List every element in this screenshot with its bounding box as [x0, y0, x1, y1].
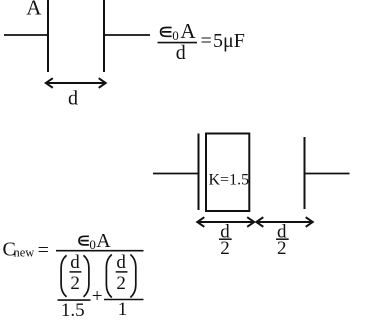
- capacitor C2 right plate: [304, 137, 306, 209]
- svg-text:d: d: [116, 252, 126, 273]
- epsilon0 symbol (numerator): [79, 236, 89, 245]
- dimension arrow d (plate separation of C1): [46, 78, 106, 88]
- capacitor C1 right plate: [103, 0, 105, 72]
- denominator bar (left group): [58, 299, 91, 301]
- svg-text:+: +: [92, 286, 103, 307]
- svg-text:=: =: [201, 30, 212, 52]
- denominator bar (right group): [104, 299, 144, 301]
- svg-text:2: 2: [277, 238, 287, 259]
- left parenthesis (d/2 over 1 group): [106, 255, 111, 298]
- svg-text:2: 2: [220, 238, 230, 259]
- wire (left lead of capacitor C2): [153, 173, 199, 175]
- wire (left lead of capacitor C1): [4, 34, 48, 36]
- svg-text:2: 2: [70, 273, 80, 294]
- fraction bar: [158, 42, 198, 44]
- svg-text:=: =: [38, 240, 49, 262]
- dimension arrow d/2 (dielectric thickness): [197, 217, 254, 227]
- right parenthesis (right group): [130, 255, 135, 298]
- formula Cnew (series combination result): [3, 230, 144, 321]
- svg-text:K=1.5: K=1.5: [209, 172, 250, 189]
- dielectric slab K=1.5 (inside C2): [206, 134, 249, 212]
- dimension arrow d/2 (air gap thickness): [256, 217, 312, 227]
- svg-text:A: A: [96, 230, 111, 252]
- svg-text:0: 0: [172, 28, 179, 43]
- svg-text:2: 2: [116, 273, 126, 294]
- label d/2 (air gap thickness): [276, 221, 289, 259]
- svg-text:new: new: [14, 246, 35, 260]
- svg-text:1: 1: [118, 299, 128, 320]
- right parenthesis (left group): [84, 255, 89, 296]
- svg-text:A: A: [180, 19, 196, 43]
- svg-text:1.5: 1.5: [61, 300, 85, 321]
- svg-text:d: d: [176, 42, 186, 64]
- formula C1 value: epsilon0 A over d = 5 microfarad: [158, 19, 245, 64]
- capacitor C2 left plate: [198, 134, 200, 211]
- svg-text:5μF: 5μF: [213, 30, 245, 52]
- svg-text:A: A: [26, 0, 42, 20]
- main fraction bar: [56, 250, 144, 252]
- label d/2 (dielectric thickness): [219, 221, 232, 259]
- inner fraction bar (right): [116, 271, 128, 273]
- svg-text:d: d: [68, 88, 78, 110]
- svg-text:0: 0: [89, 237, 96, 252]
- wire (right lead of capacitor C2): [305, 173, 350, 175]
- epsilon0 symbol (numerator): [161, 28, 172, 37]
- left parenthesis (d/2 over 1.5 group): [61, 255, 66, 296]
- inner fraction bar (left): [70, 271, 82, 273]
- svg-text:d: d: [70, 252, 80, 273]
- capacitor C1 left plate: [47, 0, 49, 72]
- wire (right lead of capacitor C1): [104, 34, 150, 36]
